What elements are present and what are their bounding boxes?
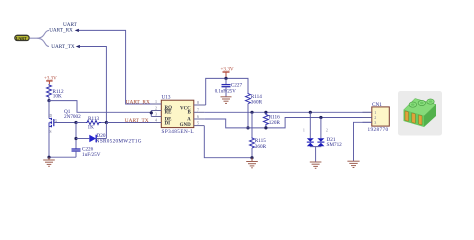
node R116/A junction bbox=[264, 126, 267, 129]
wire UART_TX down to DI node bbox=[80, 47, 107, 123]
svg-text:2: 2 bbox=[155, 106, 157, 111]
node R114/A junction bbox=[246, 126, 249, 129]
svg-text:360R: 360R bbox=[255, 144, 267, 150]
wire TVS stem to ground bbox=[315, 147, 317, 162]
node drain junction bbox=[47, 99, 50, 102]
svg-text:2: 2 bbox=[326, 129, 328, 133]
svg-text:6: 6 bbox=[197, 114, 199, 119]
resistor R116 bbox=[263, 112, 280, 128]
node R115/ground junction bbox=[250, 156, 253, 159]
svg-text:3: 3 bbox=[374, 120, 376, 125]
wire Q1 gate bbox=[54, 122, 76, 124]
svg-text:GND: GND bbox=[180, 123, 192, 128]
svg-text:UART_RX: UART_RX bbox=[49, 28, 73, 34]
svg-text:1uF/25V: 1uF/25V bbox=[82, 152, 101, 158]
harness signal arrow UART_TX bbox=[76, 45, 80, 48]
ground (under D21) bbox=[310, 162, 322, 168]
node R116/B junction bbox=[264, 111, 267, 114]
wire UART_RX to RO pin1 bbox=[79, 30, 161, 104]
svg-text:C227: C227 bbox=[231, 83, 243, 89]
wire net B bbox=[204, 111, 372, 113]
resistor R113 bbox=[76, 116, 106, 130]
resistor R112 bbox=[47, 84, 64, 99]
svg-text:8: 8 bbox=[197, 100, 199, 105]
svg-text:SM712: SM712 bbox=[327, 142, 343, 148]
wire R112 to drain node bbox=[48, 97, 50, 101]
svg-text:360R: 360R bbox=[251, 99, 263, 105]
node D20 anode junction bbox=[74, 137, 77, 140]
power port +3.3V (middle) bbox=[221, 67, 234, 79]
svg-text:SP3485EN-L: SP3485EN-L bbox=[162, 129, 194, 135]
svg-text:CN1: CN1 bbox=[372, 102, 382, 108]
wire Q1 source to ground node bbox=[48, 127, 50, 158]
svg-text:10K: 10K bbox=[53, 93, 62, 99]
svg-text:1K: 1K bbox=[88, 124, 95, 130]
svg-text:NSR0520MW2T1G: NSR0520MW2T1G bbox=[96, 138, 142, 144]
harness signal arrow UART_RX bbox=[75, 29, 79, 32]
pin 6 A bbox=[187, 114, 204, 123]
svg-text:UART_TX: UART_TX bbox=[125, 118, 149, 124]
svg-text:7: 7 bbox=[197, 107, 199, 112]
node R115/B junction bbox=[250, 111, 253, 114]
svg-text:1: 1 bbox=[303, 129, 305, 133]
pin 7 B bbox=[187, 107, 204, 115]
wire TVS bottoms join bbox=[310, 145, 321, 147]
wire TVS1 riser bbox=[309, 112, 311, 138]
svg-text:D: D bbox=[50, 114, 53, 118]
pin 3 DE bbox=[151, 112, 172, 123]
capacitor C227 bbox=[215, 78, 243, 96]
svg-text:0.1uF/25V: 0.1uF/25V bbox=[215, 89, 237, 94]
pin 8 VCC bbox=[180, 100, 206, 112]
svg-text:3: 3 bbox=[155, 112, 157, 117]
wire net A bbox=[204, 118, 372, 128]
svg-text:1928770: 1928770 bbox=[368, 127, 389, 133]
connector CN1 body bbox=[368, 102, 390, 133]
IC U13 SP3485EN-L body bbox=[161, 94, 194, 134]
pin CN1-3 bbox=[363, 120, 377, 125]
pin 1 RO bbox=[151, 99, 172, 111]
wire TVS2 riser bbox=[320, 118, 322, 139]
node source/ground junction bbox=[47, 156, 50, 159]
wire R114 to A bbox=[247, 104, 249, 128]
svg-text:UART_RX: UART_RX bbox=[126, 99, 150, 105]
TVS diode D21a bbox=[303, 129, 314, 147]
ground (under Q1) bbox=[43, 157, 55, 166]
svg-text:UART: UART bbox=[16, 36, 27, 41]
svg-text:R113: R113 bbox=[88, 116, 99, 122]
node gate junction bbox=[74, 121, 77, 124]
svg-text:5: 5 bbox=[197, 121, 199, 126]
capacitor C226 bbox=[72, 146, 101, 158]
svg-text:120R: 120R bbox=[269, 120, 281, 126]
ground (under C227) bbox=[221, 97, 232, 104]
pin CN1-1 bbox=[363, 110, 377, 115]
resistor R115 bbox=[250, 112, 267, 157]
wire C226 bottom to ground node bbox=[49, 156, 76, 158]
pin 2 RE bbox=[151, 106, 172, 116]
wire gate node down to D20 anode / C226 bbox=[75, 123, 77, 150]
transistor Q1 2N7002 bbox=[49, 101, 81, 134]
resistor R114 bbox=[246, 93, 263, 106]
svg-text:S: S bbox=[50, 130, 52, 134]
svg-text:RE: RE bbox=[165, 111, 173, 116]
node rail/C227 junction bbox=[224, 77, 227, 80]
wire DI node to pin4 bbox=[106, 122, 160, 124]
svg-text:U13: U13 bbox=[162, 94, 171, 100]
connector CN1 3D preview image bbox=[398, 91, 442, 136]
ground (under CN1 pin3) bbox=[347, 161, 359, 167]
node TVS2/A junction bbox=[319, 116, 322, 119]
wire GND pin to R115 bottom bbox=[204, 126, 252, 158]
pin 4 DI bbox=[151, 118, 170, 127]
wire RE/DE tie bbox=[150, 111, 152, 117]
harness entry UART capsule bbox=[15, 35, 29, 41]
svg-text:4: 4 bbox=[155, 118, 157, 123]
node RE/DE junction bbox=[150, 111, 153, 114]
pin 5 GND bbox=[180, 121, 205, 128]
TVS diode D21b bbox=[317, 129, 342, 149]
pin CN1-2 bbox=[363, 115, 377, 120]
wire +3.3V rail bbox=[206, 78, 248, 105]
diode D20 bbox=[76, 123, 142, 145]
svg-text:DI: DI bbox=[165, 121, 171, 126]
svg-text:1: 1 bbox=[155, 99, 157, 104]
svg-text:UART_TX: UART_TX bbox=[51, 44, 75, 50]
wire CN1 pin3 to ground bbox=[354, 122, 372, 161]
harness fanout brace bbox=[30, 30, 50, 46]
ground (under R115) bbox=[246, 158, 258, 168]
node TVS1/B junction bbox=[309, 111, 312, 114]
wire drain node to RE/DE tie bbox=[49, 101, 151, 113]
power port +3.3V (left) bbox=[44, 76, 57, 84]
node DI junction bbox=[105, 121, 108, 124]
svg-text:2N7002: 2N7002 bbox=[64, 114, 81, 120]
